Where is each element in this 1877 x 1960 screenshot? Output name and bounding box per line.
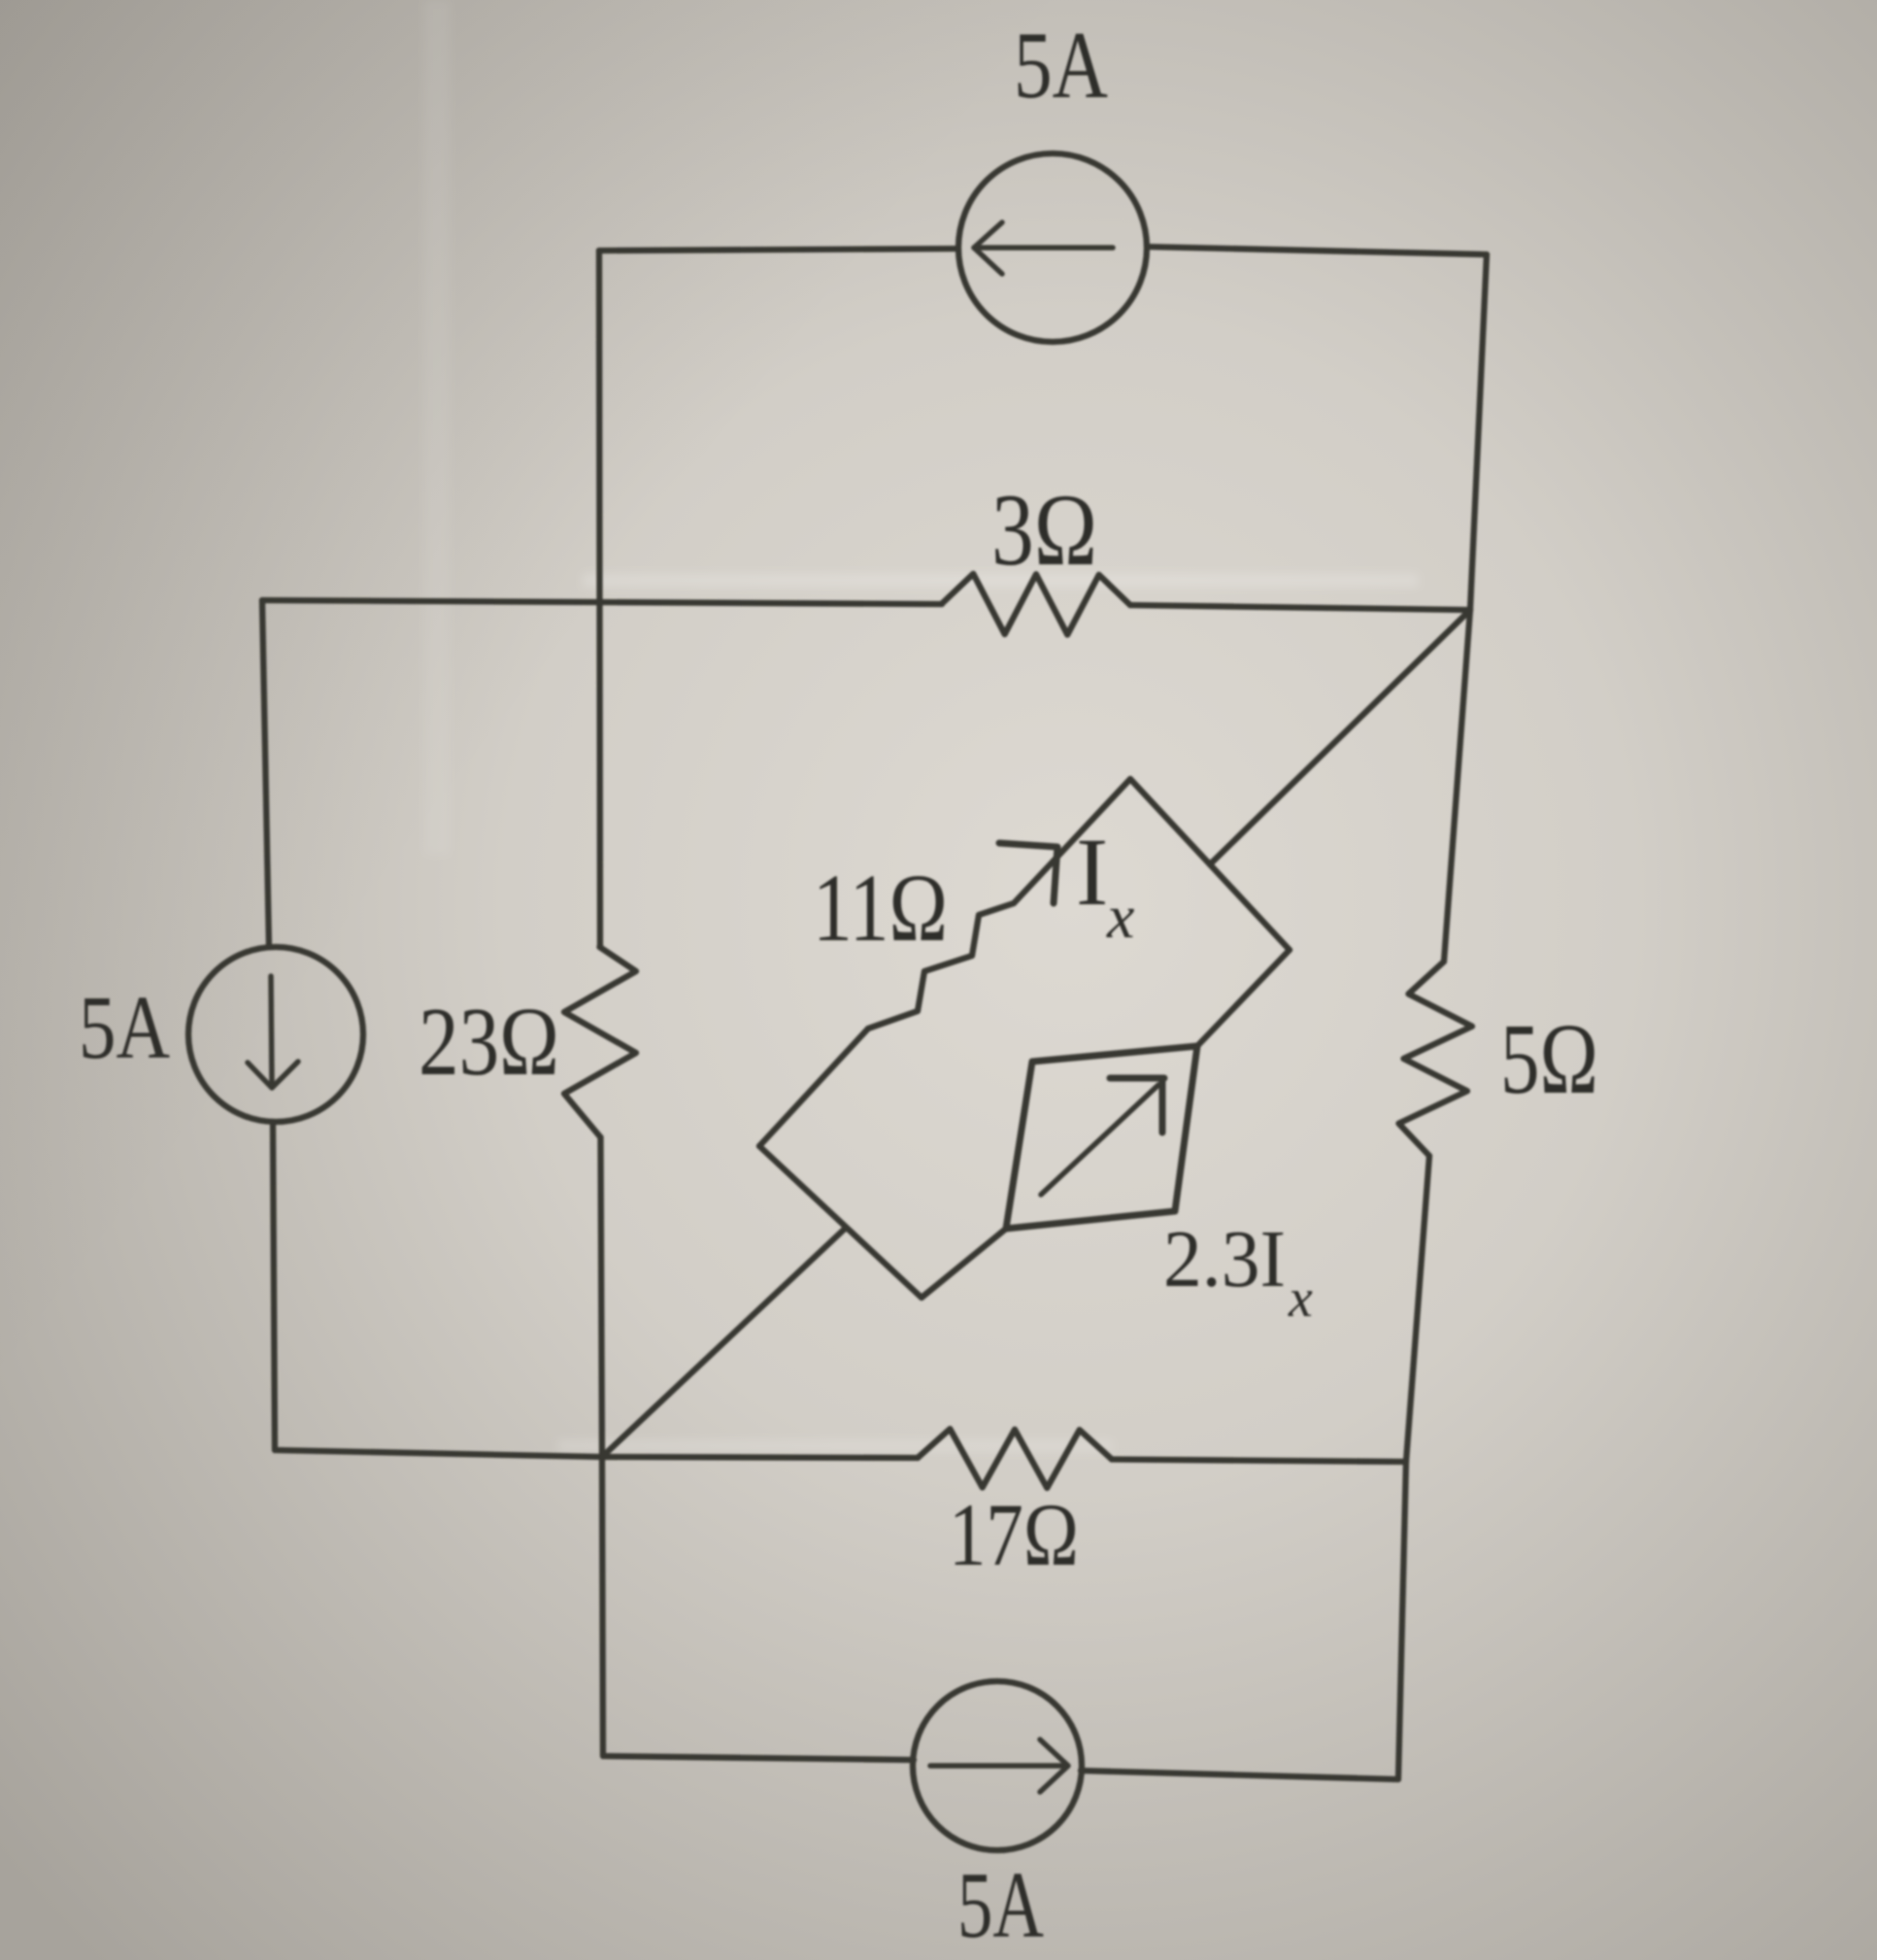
resistor R1 3-ohm (top rail) [942, 574, 1130, 635]
current source I1 5A (top, arrow left) [958, 153, 1147, 342]
svg-text:x: x [1288, 1268, 1313, 1329]
wire bottom loop left side [602, 1457, 914, 1760]
label 23-ohm [419, 987, 559, 1096]
wire parallelogram SW edge [759, 1146, 922, 1298]
label 17-ohm [949, 1485, 1079, 1584]
label 3-ohm [991, 473, 1097, 587]
node A (3-ohm rail crosses inner-left vertical) [589, 594, 613, 618]
node D (bottom-right junction: 17-ohm, 5-ohm, bottom loop) [1394, 1450, 1418, 1473]
node B (top-right junction: 3-ohm, top loop, diagonal, 5-ohm) [1458, 598, 1482, 622]
svg-text:x: x [1106, 882, 1134, 951]
label Ix [1076, 818, 1134, 951]
label 5-ohm [1500, 1003, 1598, 1115]
label 5A (bottom) [957, 1853, 1044, 1957]
current source I3 5A (bottom, arrow right) [913, 1681, 1082, 1850]
wire 5-ohm right branch (node B down to node D) [1406, 610, 1470, 1462]
svg-text:2.3I: 2.3I [1163, 1214, 1286, 1304]
svg-text:17Ω: 17Ω [949, 1485, 1079, 1584]
dependent current source 2.3Ix (diamond/square with arrow) [1006, 1046, 1197, 1229]
svg-text:I: I [1076, 818, 1108, 926]
wire parallelogram NW edge ends [759, 779, 1130, 1146]
node C (bottom-left junction: 23-ohm, stub, diagonal, 17-ohm) [590, 1445, 614, 1469]
label 5A (left) [79, 978, 170, 1078]
wire parallelogram SE edge segments [922, 950, 1290, 1298]
resistor R5 17-ohm (bottom rail) [918, 1429, 1112, 1488]
svg-text:5A: 5A [79, 978, 170, 1078]
wire diagonal upper (parallelogram NE edge to node B) [1210, 610, 1470, 864]
wire left outer branch (down from 3-ohm rail) [262, 600, 602, 1457]
label 5A (top) [1014, 13, 1108, 118]
current source I2 5A (left, arrow down) [188, 947, 363, 1122]
wire bottom loop right side [1081, 1462, 1406, 1779]
wire diagonal lower (node C to parallelogram SW edge) [602, 1230, 844, 1457]
label 2.3Ix [1163, 1214, 1313, 1329]
wire 17-ohm bottom rail [602, 1457, 1406, 1462]
wire top-right segment of top loop [1147, 247, 1487, 254]
resistor R2 23-ohm (inner-left vertical) [564, 947, 636, 1137]
wire right side of top loop [1470, 254, 1487, 610]
svg-text:5A: 5A [1014, 13, 1108, 118]
svg-text:11Ω: 11Ω [813, 854, 948, 962]
svg-text:5Ω: 5Ω [1500, 1003, 1598, 1115]
current annotation arrow Ix [999, 843, 1057, 903]
wire inner-left vertical (top rect left side down to node C) [599, 251, 602, 1457]
resistor R4 5-ohm (right vertical) [1399, 962, 1473, 1156]
svg-text:23Ω: 23Ω [419, 987, 559, 1096]
svg-text:3Ω: 3Ω [991, 473, 1097, 587]
wire top-left segment of top loop [599, 249, 958, 251]
resistor R3 11-ohm (diagonal NW edge) [868, 903, 1014, 1029]
svg-text:5A: 5A [957, 1853, 1044, 1957]
label 11-ohm [813, 854, 948, 962]
wire parallelogram NE edge [1130, 779, 1290, 950]
wire 3-ohm horizontal rail [262, 600, 1470, 610]
